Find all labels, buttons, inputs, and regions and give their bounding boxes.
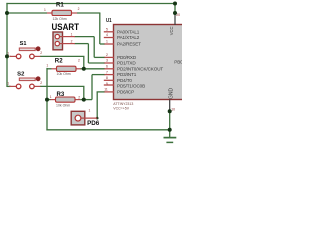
svg-text:1: 1 bbox=[71, 33, 73, 37]
svg-text:1: 1 bbox=[89, 109, 91, 113]
svg-text:2: 2 bbox=[106, 53, 108, 57]
svg-text:PA2/RESET: PA2/RESET bbox=[117, 42, 141, 47]
svg-text:PA0/XTAL1: PA0/XTAL1 bbox=[117, 29, 140, 34]
svg-text:1: 1 bbox=[7, 82, 9, 86]
svg-text:4: 4 bbox=[106, 33, 108, 37]
svg-text:PD2/INT0/XCK/CKOUT: PD2/INT0/XCK/CKOUT bbox=[117, 66, 163, 71]
svg-text:PD1/TXD: PD1/TXD bbox=[117, 61, 136, 66]
svg-text:2: 2 bbox=[40, 51, 42, 55]
svg-text:PD0/RXD: PD0/RXD bbox=[117, 55, 137, 60]
svg-text:1: 1 bbox=[50, 95, 52, 99]
svg-text:1: 1 bbox=[46, 64, 48, 68]
svg-text:3: 3 bbox=[106, 59, 108, 63]
svg-text:2: 2 bbox=[78, 95, 80, 99]
svg-text:PD4/T0: PD4/T0 bbox=[117, 78, 132, 83]
svg-text:PD5/T1/OC0B: PD5/T1/OC0B bbox=[117, 84, 145, 89]
svg-text:11: 11 bbox=[104, 88, 108, 92]
svg-text:10k Ohm: 10k Ohm bbox=[57, 72, 71, 76]
svg-text:5: 5 bbox=[106, 27, 108, 31]
svg-text:VCC=+5V: VCC=+5V bbox=[113, 106, 129, 110]
svg-text:USART: USART bbox=[52, 21, 80, 32]
svg-text:PD3/INT1: PD3/INT1 bbox=[117, 72, 137, 77]
svg-text:2: 2 bbox=[40, 81, 42, 85]
svg-text:R2: R2 bbox=[55, 58, 63, 64]
svg-text:PA1/XTAL2: PA1/XTAL2 bbox=[117, 35, 140, 40]
svg-text:1: 1 bbox=[44, 8, 46, 12]
svg-text:8: 8 bbox=[106, 76, 108, 80]
svg-text:1: 1 bbox=[7, 52, 9, 56]
svg-text:6: 6 bbox=[106, 65, 108, 69]
svg-text:R3: R3 bbox=[57, 92, 65, 98]
svg-text:2: 2 bbox=[78, 7, 80, 11]
svg-text:S1: S1 bbox=[20, 41, 27, 47]
svg-text:PD6: PD6 bbox=[87, 120, 100, 127]
svg-text:S2: S2 bbox=[17, 71, 24, 77]
svg-text:GND: GND bbox=[168, 88, 174, 100]
svg-text:2: 2 bbox=[78, 58, 80, 62]
svg-text:10k Ohm: 10k Ohm bbox=[56, 104, 70, 108]
svg-text:ATTINY2313: ATTINY2313 bbox=[113, 102, 133, 106]
svg-text:2: 2 bbox=[71, 40, 73, 44]
svg-text:VCC: VCC bbox=[169, 26, 174, 35]
svg-text:7: 7 bbox=[106, 70, 108, 74]
svg-text:U1: U1 bbox=[106, 18, 112, 24]
svg-text:PB0: PB0 bbox=[174, 60, 182, 65]
svg-text:R1: R1 bbox=[56, 2, 64, 8]
svg-text:PD6/ICP: PD6/ICP bbox=[117, 90, 134, 95]
svg-text:10: 10 bbox=[171, 108, 175, 112]
svg-text:1: 1 bbox=[106, 40, 108, 44]
svg-text:9: 9 bbox=[106, 82, 108, 86]
